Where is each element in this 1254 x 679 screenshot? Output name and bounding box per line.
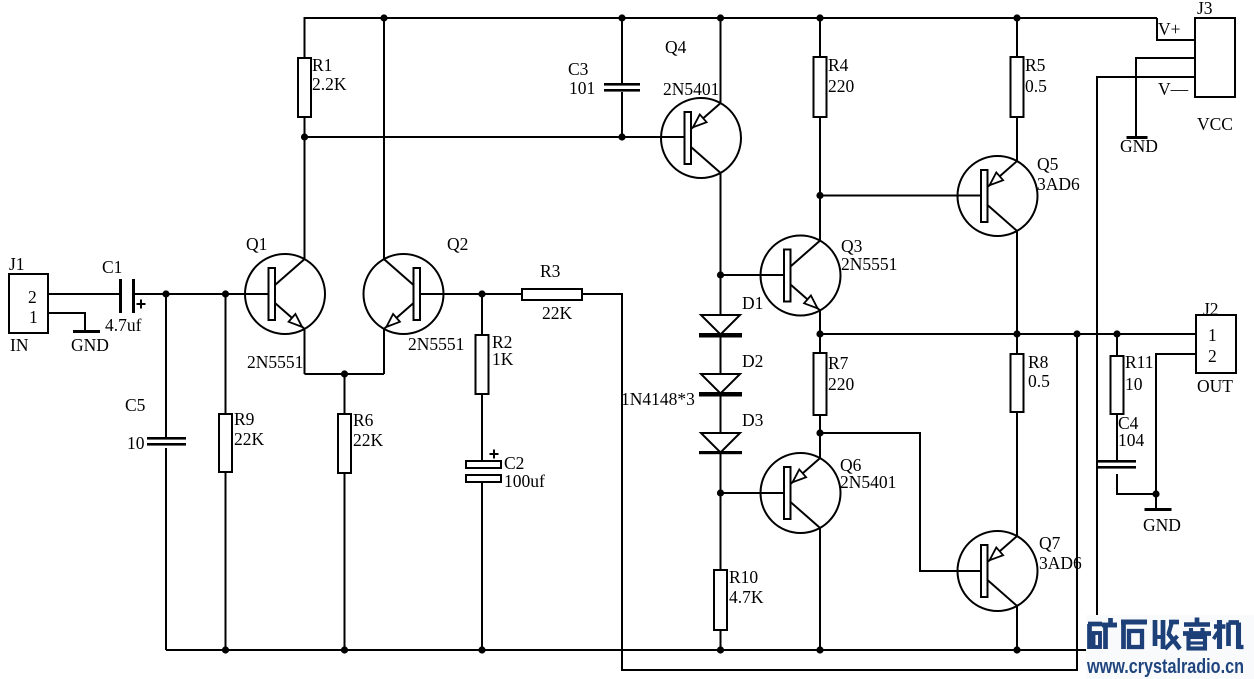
watermark logo kuangshi shouyinji — [1088, 618, 1244, 650]
node R11 top — [1113, 330, 1120, 337]
wire bottom rail — [166, 649, 1097, 651]
svg-text:C2: C2 — [504, 453, 524, 473]
transistor Q1 — [245, 234, 325, 372]
svg-text:Q4: Q4 — [665, 37, 687, 57]
wire C1 to Q1 base — [135, 293, 269, 295]
ground VCC GND — [1120, 136, 1158, 156]
node rail-R10 — [717, 646, 724, 653]
svg-text:GND: GND — [1143, 515, 1181, 535]
svg-text:0.5: 0.5 — [1025, 76, 1047, 96]
svg-text:1N4148*3: 1N4148*3 — [621, 389, 695, 409]
wire feedback R3 right leg — [582, 294, 1077, 670]
wire Q5 base wire — [820, 195, 981, 197]
svg-text:2N5551: 2N5551 — [408, 334, 464, 354]
node rail-Q7 — [1013, 646, 1020, 653]
ground output GND — [1143, 508, 1181, 535]
connector J2 — [1196, 299, 1236, 396]
wire R2 to C2 — [481, 394, 483, 461]
resistor R5 — [1011, 55, 1048, 117]
diode D3 — [699, 410, 764, 454]
wire R7 leads — [819, 334, 821, 353]
transistor Q6 — [761, 453, 897, 533]
ground input GND — [71, 330, 109, 355]
svg-text:1: 1 — [1208, 325, 1217, 345]
wire V+ top rail — [305, 17, 1158, 19]
wire C3 bottom lead — [621, 92, 623, 137]
wire join to R6 — [344, 374, 346, 414]
svg-text:Q5: Q5 — [1037, 154, 1059, 174]
wire J2 gnd stub — [1155, 494, 1157, 508]
node C3 bottom — [618, 133, 625, 140]
diode D2 — [699, 351, 763, 397]
svg-text:R5: R5 — [1025, 55, 1046, 75]
wire J2 pin2 leg — [1156, 354, 1196, 494]
wire R7 to Q7 base — [820, 433, 983, 571]
capacitor C2 100uf electrolytic — [466, 450, 545, 492]
svg-text:D3: D3 — [742, 410, 764, 430]
svg-text:100uf: 100uf — [504, 471, 545, 491]
wire C2 bottom lead — [481, 482, 483, 650]
node C4 gnd — [1152, 490, 1159, 497]
node input after C1 — [162, 290, 169, 297]
node rail-R9 — [222, 646, 229, 653]
node rail-Q2 — [380, 14, 387, 21]
connector J3 — [1158, 0, 1235, 134]
wire Q6 collector to bottom rail — [819, 528, 821, 650]
transistor Q5 — [958, 154, 1081, 236]
transistor Q2 — [364, 234, 469, 354]
node Q3 emitter — [816, 330, 823, 337]
wire Q3 emitter to output node — [819, 310, 821, 334]
svg-text:R11: R11 — [1125, 352, 1154, 372]
wire Q6 emitter lead — [819, 433, 821, 458]
connector J1 — [9, 254, 48, 355]
wire Q2 collector to rail — [383, 18, 385, 259]
capacitor C1 4.7uf — [102, 257, 146, 335]
svg-text:2N5551: 2N5551 — [247, 352, 303, 372]
wire J3 V- pin down right side — [1097, 77, 1195, 650]
wire C5 bottom lead — [165, 448, 167, 650]
wire Q4 collector to D1 — [720, 173, 722, 316]
transistor Q4 — [661, 37, 741, 178]
wire V+ step to J3 — [1157, 18, 1195, 40]
wire emitter join — [305, 373, 385, 375]
wire R5 top lead — [1016, 18, 1018, 57]
node R4-Q5 base — [816, 192, 823, 199]
node emitter join — [341, 370, 348, 377]
wire Q2 emitter drop — [383, 329, 385, 374]
svg-text:101: 101 — [569, 78, 595, 98]
wire output net to J2 pin1 — [820, 333, 1196, 335]
wire C5 top lead — [165, 294, 167, 437]
wire Q4 emitter to rail — [720, 18, 722, 104]
node rail-R5 — [1013, 14, 1020, 21]
svg-text:2N5551: 2N5551 — [841, 254, 897, 274]
svg-text:Q2: Q2 — [447, 234, 468, 254]
transistor Q7 — [958, 531, 1083, 611]
svg-text:2N5401: 2N5401 — [840, 472, 896, 492]
svg-text:R9: R9 — [234, 409, 255, 429]
node Q2 base — [478, 290, 485, 297]
svg-text:R10: R10 — [729, 567, 758, 587]
svg-text:R6: R6 — [353, 410, 374, 430]
node Q6 base — [717, 489, 724, 496]
wire R9 top lead — [225, 294, 227, 414]
svg-text:OUT: OUT — [1197, 376, 1233, 396]
wire C3 top lead — [621, 18, 623, 83]
wire R6 bottom lead — [344, 473, 346, 650]
wire R1 bottom to Q1 collector node — [304, 117, 306, 259]
svg-text:22K: 22K — [353, 430, 384, 450]
svg-text:J2: J2 — [1203, 299, 1219, 319]
svg-text:VCC: VCC — [1197, 114, 1233, 134]
resistor R10 — [714, 567, 764, 630]
wire R11 to C4 — [1116, 414, 1118, 460]
svg-text:1K: 1K — [492, 349, 514, 369]
wire R4 bottom to Q3 collector — [819, 117, 821, 241]
svg-text:Q7: Q7 — [1039, 533, 1061, 553]
capacitor C5 10 — [125, 395, 186, 453]
svg-text:GND: GND — [1120, 136, 1158, 156]
svg-text:www.crystalradio.cn: www.crystalradio.cn — [1086, 656, 1244, 678]
wire D2-D3 link — [720, 396, 722, 433]
svg-text:2.2K: 2.2K — [312, 74, 347, 94]
wire J1 pin2 to C1 — [48, 293, 119, 295]
node rail-Q4 — [717, 14, 724, 21]
wire Q1 emitter drop — [304, 329, 306, 374]
diode D1 — [699, 293, 763, 338]
wire R4 top lead — [819, 18, 821, 57]
svg-text:R8: R8 — [1028, 352, 1049, 372]
svg-text:22K: 22K — [542, 303, 573, 323]
svg-text:GND: GND — [71, 335, 109, 355]
wire C4 bottom L — [1117, 474, 1156, 494]
svg-text:C5: C5 — [125, 395, 146, 415]
svg-text:0.5: 0.5 — [1028, 371, 1050, 391]
svg-text:R7: R7 — [828, 353, 849, 373]
watermark background — [1086, 615, 1254, 679]
svg-text:104: 104 — [1118, 430, 1145, 450]
svg-text:4.7uf: 4.7uf — [105, 315, 142, 335]
wire Q7 collector to bottom rail — [1016, 606, 1018, 650]
svg-text:3AD6: 3AD6 — [1037, 174, 1080, 194]
wire Q3 base wire — [721, 274, 785, 276]
node rail-R6 — [341, 646, 348, 653]
svg-text:D2: D2 — [742, 351, 763, 371]
svg-text:220: 220 — [828, 374, 855, 394]
resistor R2 — [476, 332, 514, 394]
wire R11 top lead — [1116, 334, 1118, 356]
wire D3 to Q6 base node — [720, 454, 722, 570]
capacitor C4 104 — [1098, 413, 1145, 469]
node rail-C3 — [618, 14, 625, 21]
resistor R7 — [814, 353, 855, 415]
svg-text:J3: J3 — [1197, 0, 1213, 18]
svg-text:R1: R1 — [312, 55, 332, 75]
node R8 top — [1013, 330, 1020, 337]
wire R2 top lead — [481, 294, 483, 335]
svg-text:R3: R3 — [540, 261, 561, 281]
resistor R4 — [814, 55, 855, 117]
svg-text:4.7K: 4.7K — [729, 587, 764, 607]
wire horizontal net R1-C3-Q4 base — [305, 136, 687, 138]
svg-text:2: 2 — [28, 287, 37, 307]
resistor R9 — [219, 409, 265, 472]
wire R5 bottom to Q5 emitter — [1016, 117, 1018, 162]
resistor R3 — [522, 261, 582, 323]
svg-text:10: 10 — [1125, 374, 1143, 394]
wire Q5 collector to output node — [1016, 231, 1018, 334]
node rail-Q6 — [816, 646, 823, 653]
transistor Q3 — [761, 236, 898, 316]
wire rail corner to R1 — [304, 17, 306, 58]
node feedback top — [1073, 330, 1080, 337]
wire J3 middle pin to GND — [1136, 58, 1195, 136]
svg-text:V+: V+ — [1158, 19, 1181, 39]
svg-text:2N5401: 2N5401 — [663, 79, 719, 99]
node Q3 base — [717, 271, 724, 278]
node R9 top — [222, 290, 229, 297]
wire J1 pin1 to gnd — [48, 313, 85, 330]
wire Q6 base wire — [721, 492, 786, 494]
resistor R6 — [338, 410, 384, 473]
svg-text:C3: C3 — [568, 59, 589, 79]
wire Q2 base to R3 — [417, 293, 522, 295]
svg-text:1: 1 — [29, 307, 38, 327]
resistor R8 — [1011, 352, 1051, 412]
svg-text:IN: IN — [10, 335, 29, 355]
svg-text:10: 10 — [127, 433, 145, 453]
svg-text:Q1: Q1 — [246, 234, 267, 254]
svg-text:C1: C1 — [102, 257, 122, 277]
svg-text:Q3: Q3 — [841, 236, 863, 256]
capacitor C3 101 — [568, 59, 640, 98]
svg-text:D1: D1 — [742, 293, 763, 313]
svg-text:22K: 22K — [234, 429, 265, 449]
wire R7 bottom node lead — [819, 415, 821, 433]
svg-text:J1: J1 — [9, 254, 25, 274]
node rail-C2 — [478, 646, 485, 653]
wire R8 top lead — [1016, 334, 1018, 354]
wire R8 bottom to Q7 emitter — [1016, 412, 1018, 536]
svg-text:R4: R4 — [828, 55, 849, 75]
resistor R11 — [1111, 352, 1154, 414]
node R7 bottom — [816, 429, 823, 436]
node rail-R4 — [816, 14, 823, 21]
svg-text:220: 220 — [828, 76, 855, 96]
node R1 bottom — [301, 133, 308, 140]
svg-text:V—: V— — [1158, 79, 1189, 99]
svg-text:2: 2 — [1208, 346, 1217, 366]
wire R10 bottom lead — [720, 630, 722, 650]
resistor R1 — [298, 55, 347, 117]
svg-text:3AD6: 3AD6 — [1039, 553, 1082, 573]
wire D1-D2 link — [720, 337, 722, 374]
wire R9 bottom lead — [225, 472, 227, 650]
